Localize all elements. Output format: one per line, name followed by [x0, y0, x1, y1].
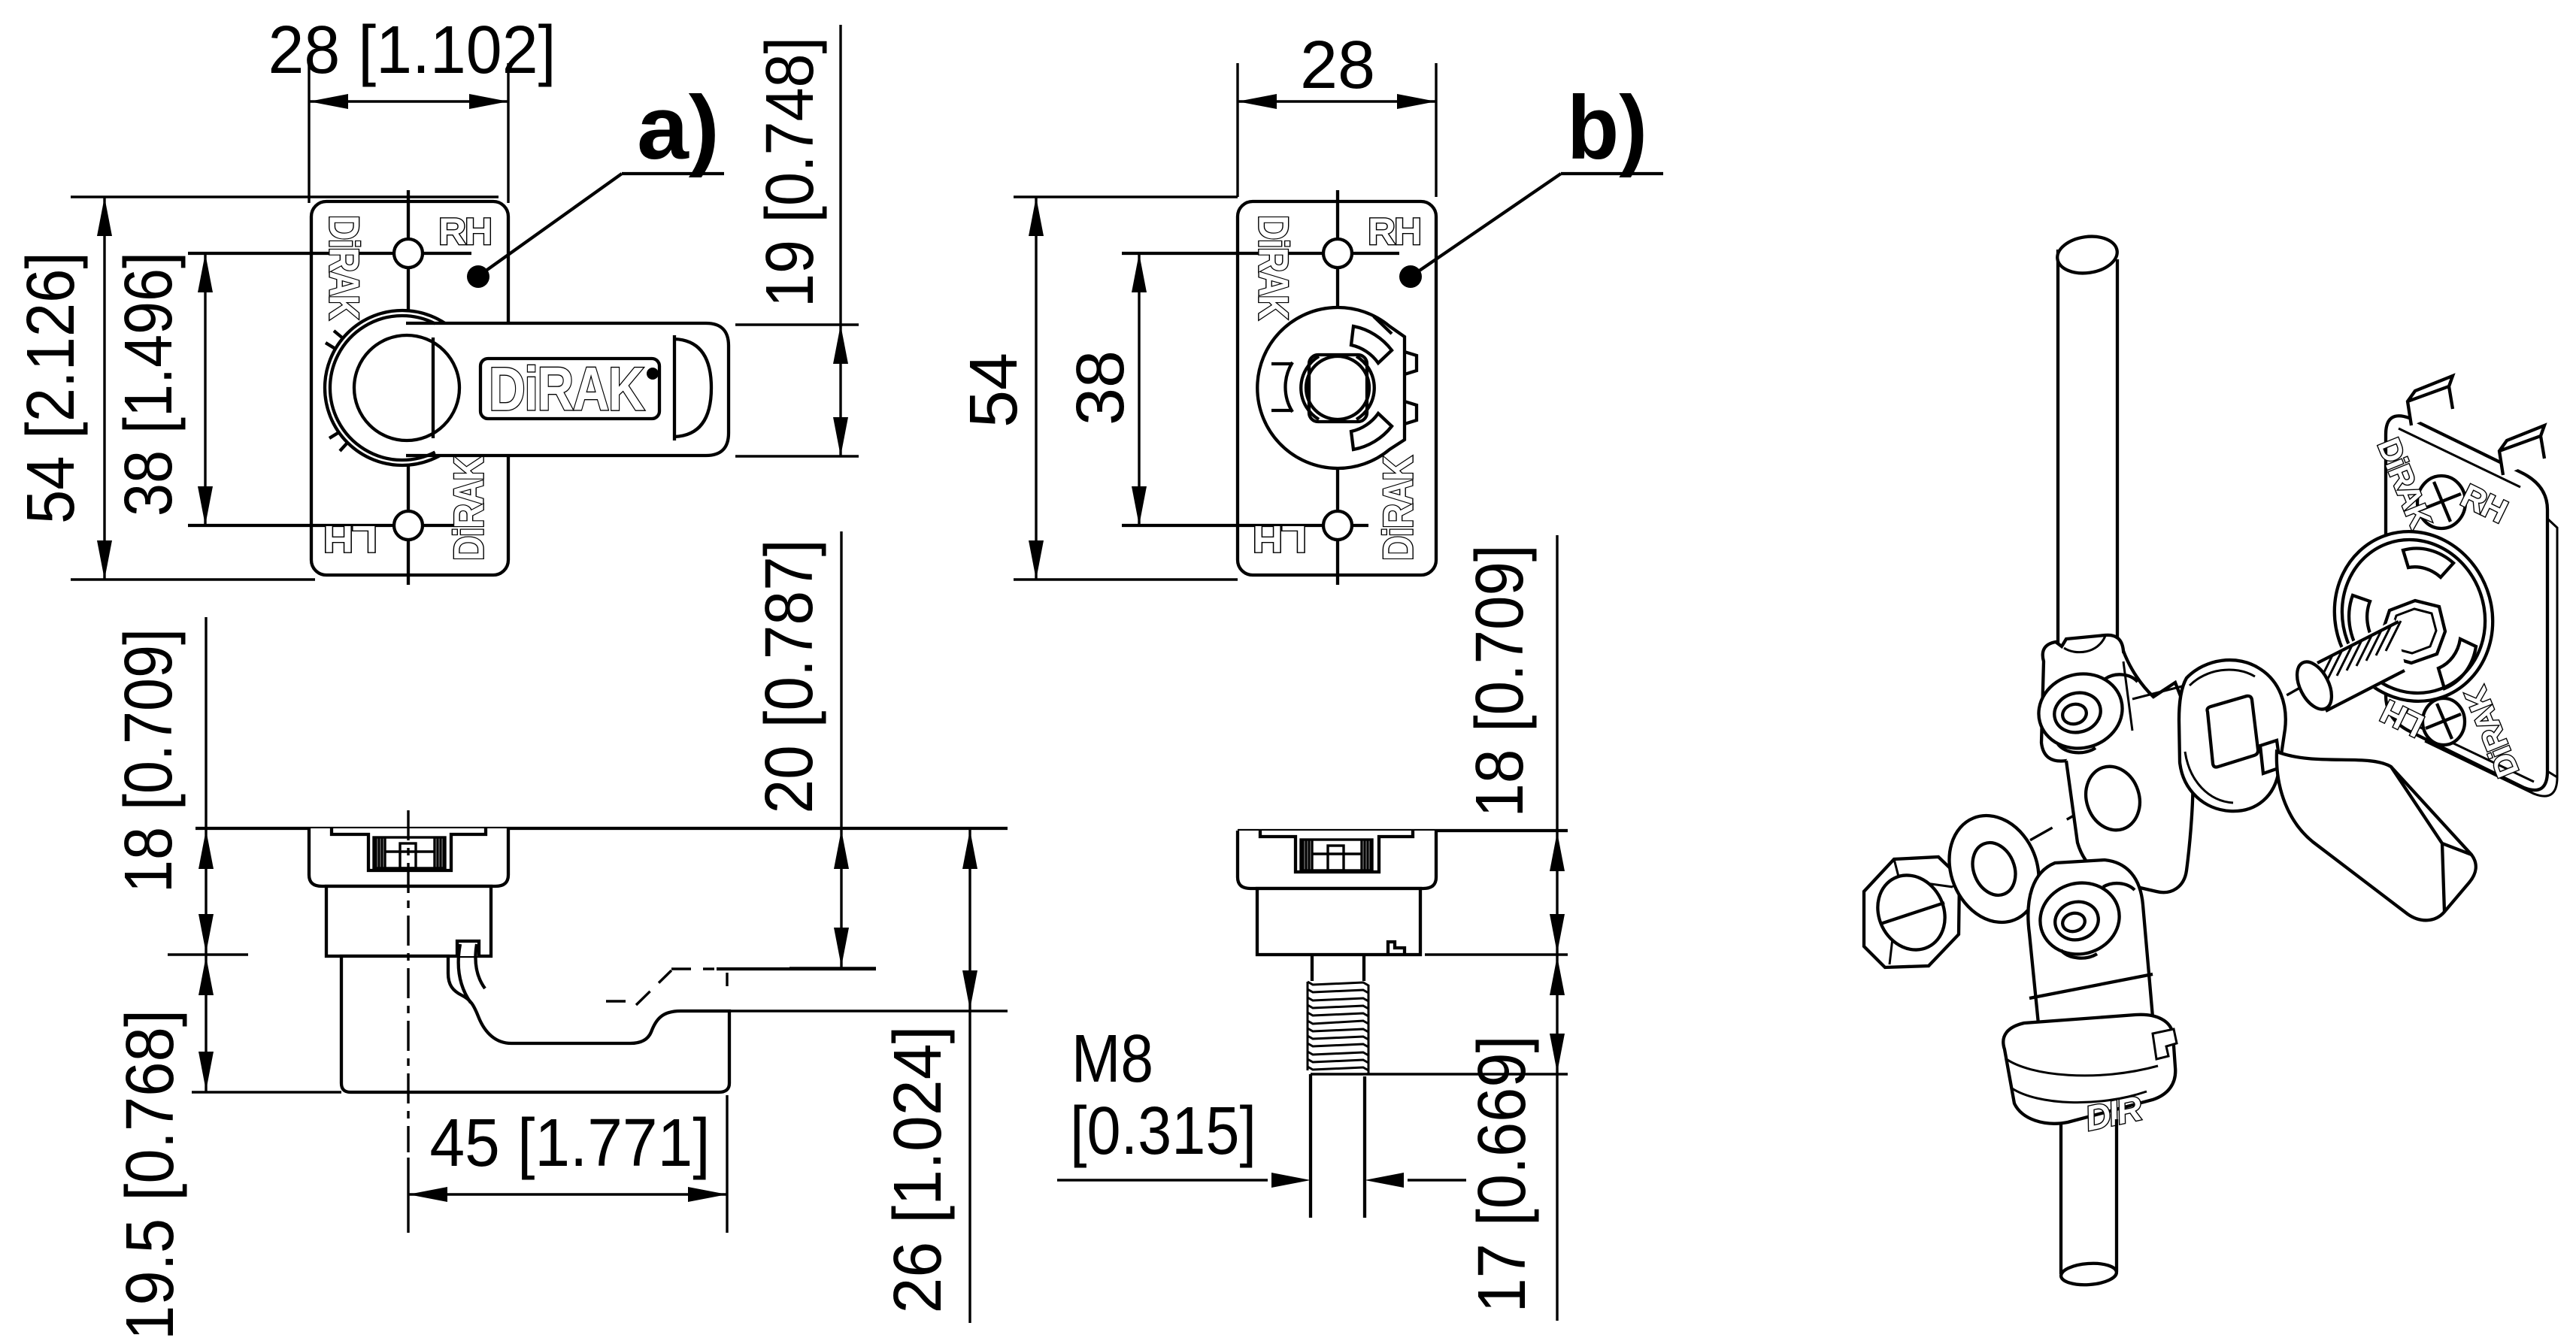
dimension 19 [0.748] view a	[735, 25, 859, 456]
side view b: neck	[1257, 888, 1420, 955]
knob face chord view a	[432, 338, 435, 438]
dimension M8 [0.315] side b	[1057, 1022, 1466, 1188]
side view a: floating nut in recess	[374, 837, 445, 868]
dimension 18 [0.709] side b	[1425, 535, 1568, 1321]
side view a: cap flange	[309, 828, 508, 886]
plate text RH view a	[438, 210, 491, 253]
exploded view: upper rod clamp yoke	[2030, 635, 2193, 892]
handle logo trademark dot view a	[647, 368, 659, 380]
dimension 20 [0.787] side a	[752, 531, 876, 968]
handle DIRAK logo frame view a	[480, 359, 659, 419]
exploded view: base cam housing	[2003, 1015, 2177, 1124]
svg-text:38: 38	[1063, 350, 1138, 425]
dimension 28 view b	[1238, 28, 1436, 197]
side view b: thread end line	[1311, 1073, 1568, 1075]
dimension 28 [1.102] view a	[268, 13, 556, 203]
svg-text:LH: LH	[325, 518, 377, 560]
dimension 38 view b	[1063, 253, 1147, 525]
exploded view: wrench blade	[2277, 752, 2476, 920]
cam rosette view b	[1257, 307, 1417, 468]
label b) with leader	[1399, 77, 1663, 288]
centerline view a	[407, 190, 410, 585]
knob inner arc view a	[330, 316, 435, 460]
svg-text:19 [0.748]: 19 [0.748]	[753, 37, 828, 307]
plate clip tab 1	[2408, 376, 2453, 425]
knob face circle view a	[354, 335, 459, 440]
svg-text:18 [0.709]: 18 [0.709]	[111, 628, 186, 893]
cam square hole view b	[1309, 355, 1367, 422]
exploded view: body pivot bolt	[2032, 874, 2128, 963]
exploded view: plate embossed texts	[2371, 433, 2438, 533]
side view b: claw tab	[1388, 942, 1405, 955]
side view b: top surface line	[1238, 829, 1568, 832]
plate text RH view b	[1368, 210, 1420, 253]
plate embossed text DIRAK top-left view a	[321, 215, 368, 319]
dimension 19.5 [0.768] side a	[113, 956, 214, 1340]
dimension 26 [1.024] side a	[729, 828, 1008, 1323]
dimension 38 [1.496] view a	[111, 252, 213, 525]
exploded view: lower rod stub	[2060, 1119, 2117, 1287]
svg-text:DiRAK: DiRAK	[1374, 456, 1422, 561]
svg-text:M8: M8	[1071, 1022, 1153, 1097]
plate embossed text DIRAK top-left view b	[1250, 215, 1298, 319]
screw hole top view b	[1323, 239, 1352, 268]
svg-text:54 [2.126]: 54 [2.126]	[14, 252, 89, 524]
exploded view: hex boss on rosette	[2382, 601, 2445, 663]
plate embossed text DIRAK bottom-right view b	[1374, 456, 1422, 561]
side view a: tongue top edge	[717, 967, 876, 970]
exploded view: lock nut	[1864, 857, 1959, 967]
front view b: mounting plate	[1238, 201, 1436, 575]
front view a: mounting plate	[311, 201, 508, 575]
dimension 45 [1.771] side a	[408, 1095, 727, 1233]
side view a: dashed centerline	[407, 810, 409, 1152]
handle lever body view a	[396, 323, 729, 456]
svg-text:[0.315]: [0.315]	[1070, 1094, 1256, 1169]
handle DIRAK logo text view a	[489, 356, 644, 424]
svg-text:54: 54	[956, 353, 1032, 428]
dimension 17 [0.669] side b	[1465, 956, 1565, 1313]
exploded view: iso mounting plate	[2386, 376, 2557, 796]
exploded view: dashed assembly axis	[1884, 630, 2402, 923]
plate clip tab 2	[2499, 425, 2544, 475]
side view b: cap flange	[1238, 831, 1436, 888]
svg-text:DiRAK: DiRAK	[445, 456, 492, 561]
centerline view b	[1336, 190, 1339, 585]
screw hole top view a	[394, 239, 423, 268]
exploded view: DIRAK text on base rim	[2082, 1088, 2145, 1138]
svg-text:17 [0.669]: 17 [0.669]	[1465, 1036, 1540, 1313]
handle end cap seam view a	[674, 335, 711, 440]
svg-text:45 [1.771]: 45 [1.771]	[430, 1106, 711, 1181]
side view a: neck	[326, 886, 491, 956]
svg-text:DiRAK: DiRAK	[489, 356, 644, 424]
svg-text:LH: LH	[1254, 518, 1307, 560]
svg-text:26 [1.024]: 26 [1.024]	[880, 1026, 956, 1314]
exploded view: arrow mark on body	[2096, 1019, 2135, 1037]
svg-text:RH: RH	[438, 210, 491, 253]
exploded view: wrench handle head	[2179, 660, 2286, 811]
screw hole bottom view a	[394, 511, 423, 540]
side view b: floating nut in recess	[1301, 840, 1372, 870]
exploded view: lower swivel body	[2028, 860, 2153, 1062]
svg-text:RH: RH	[1368, 210, 1420, 253]
label a) with leader	[467, 77, 724, 288]
screw hole lines view b	[1122, 252, 1399, 255]
svg-text:18 [0.709]: 18 [0.709]	[1462, 545, 1538, 818]
dimension 18 [0.709] side a	[111, 617, 341, 1093]
side view b: plain rod	[1309, 1074, 1312, 1218]
knob tabs view a	[326, 331, 343, 349]
handle lever view a: knob outer circle	[325, 310, 480, 465]
side view a: latch body with cam pocket	[341, 956, 729, 1092]
dimension 54 view b	[956, 197, 1238, 580]
side view b: stud boss	[1312, 955, 1364, 981]
exploded view: actuation rod	[2055, 233, 2120, 667]
side view b: cap top recess	[1260, 831, 1413, 872]
cam shaft circle view b	[1306, 356, 1369, 419]
exploded view: yoke pivot bolt	[2030, 664, 2131, 758]
cam wing slots view b	[1271, 364, 1293, 410]
plate embossed text DIRAK bottom-right view a	[445, 456, 492, 561]
side view a: latch claw	[457, 941, 479, 956]
exploded view: plate phillips screws	[2417, 476, 2465, 745]
exploded view: cam rosette iso	[2311, 509, 2516, 723]
svg-text:a): a)	[637, 77, 720, 178]
side view a: cap top recess	[332, 828, 486, 870]
svg-text:b): b)	[1567, 77, 1647, 178]
plate text LH view b	[1254, 518, 1307, 560]
svg-text:28: 28	[1300, 28, 1375, 103]
plate text LH view a	[325, 518, 377, 560]
screw hole lines view a	[188, 252, 471, 255]
side view b: M8 thread	[1308, 982, 1368, 1070]
svg-text:20 [0.787]: 20 [0.787]	[752, 540, 827, 814]
svg-text:DiRAK: DiRAK	[1250, 215, 1298, 319]
svg-text:38 [1.496]: 38 [1.496]	[111, 252, 186, 516]
svg-text:28 [1.102]: 28 [1.102]	[268, 13, 556, 88]
exploded view: threaded stud	[2290, 619, 2406, 715]
dimension 54 [2.126] view a	[14, 197, 499, 580]
svg-text:DiRAK: DiRAK	[321, 215, 368, 319]
svg-text:19.5 [0.768]: 19.5 [0.768]	[113, 1010, 188, 1340]
side view a: panel surface line	[195, 827, 1008, 830]
exploded view: washer	[1934, 802, 2054, 936]
screw hole bottom view b	[1323, 511, 1352, 540]
exploded view: lever crank plate	[2066, 651, 2193, 892]
